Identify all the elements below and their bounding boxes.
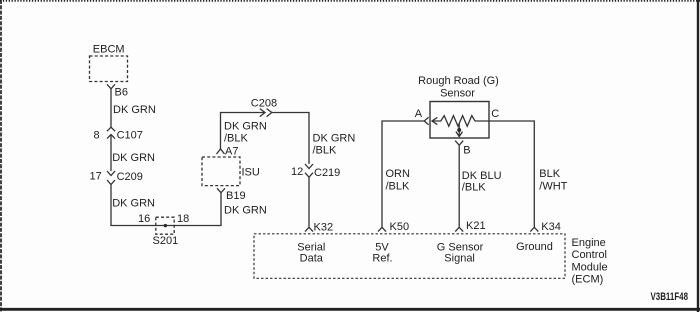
svg-text:C: C — [491, 108, 499, 120]
svg-text:Engine: Engine — [572, 237, 606, 249]
svg-text:/BLK: /BLK — [386, 181, 411, 193]
svg-text:K32: K32 — [314, 222, 334, 234]
wire C208 to C219 — [272, 113, 309, 165]
label DK GRN /BLK wire C208-C219 — [313, 132, 356, 156]
svg-text:K50: K50 — [390, 221, 410, 233]
wire C219 to ECM K32 — [308, 177, 310, 227]
pin B fork — [455, 141, 463, 146]
svg-text:C209: C209 — [117, 171, 143, 183]
svg-text:C107: C107 — [117, 130, 143, 142]
svg-text:C219: C219 — [314, 167, 340, 179]
svg-text:17: 17 — [90, 171, 102, 183]
label G Sensor Signal — [437, 241, 484, 264]
svg-text:DK GRN: DK GRN — [313, 132, 356, 144]
wire A7 to C208 — [221, 113, 265, 149]
svg-text:BLK: BLK — [539, 168, 560, 180]
svg-text:A: A — [415, 108, 423, 120]
svg-text:B: B — [463, 144, 470, 156]
pin K34 fork — [530, 227, 538, 231]
svg-text:Control: Control — [572, 249, 607, 261]
svg-text:Sensor: Sensor — [440, 88, 475, 100]
svg-text:/WHT: /WHT — [539, 181, 567, 193]
wire C107 to C209 — [110, 135, 112, 171]
svg-text:K34: K34 — [541, 221, 561, 233]
svg-text:/BLK: /BLK — [224, 132, 249, 144]
svg-text:/BLK: /BLK — [462, 182, 487, 194]
label DK BLU /BLK — [462, 170, 502, 194]
pin K21 fork — [455, 227, 463, 231]
module ECM — [254, 234, 565, 278]
connector C208 — [260, 109, 272, 117]
label Serial Data — [297, 241, 325, 264]
svg-text:DK GRN: DK GRN — [224, 120, 267, 132]
wire B to K21 — [458, 145, 460, 227]
svg-text:DK GRN: DK GRN — [112, 198, 155, 210]
svg-text:A7: A7 — [225, 146, 238, 158]
pin B19 fork — [217, 188, 225, 192]
svg-text:Module: Module — [572, 261, 608, 273]
pin K50 fork — [378, 227, 386, 231]
wire C to K34 — [475, 121, 534, 227]
pin B6 fork — [107, 84, 115, 89]
svg-text:/BLK: /BLK — [313, 144, 338, 156]
svg-text:DK GRN: DK GRN — [113, 104, 156, 116]
module EBCM — [90, 56, 128, 82]
svg-text:Ground: Ground — [516, 241, 553, 253]
connector C219 — [305, 164, 313, 177]
wiper arrow — [456, 123, 463, 137]
wire B6 to C107 — [110, 89, 112, 127]
wire A to K50 — [382, 121, 424, 227]
sensor Rough Road (G) box — [430, 102, 489, 139]
svg-text:ISU: ISU — [242, 167, 260, 179]
svg-text:C208: C208 — [251, 98, 277, 110]
label ORN /BLK — [386, 168, 411, 193]
svg-text:12: 12 — [291, 166, 303, 178]
svg-text:ORN: ORN — [386, 168, 411, 180]
wiper junction dot — [457, 128, 461, 132]
module ISU — [202, 157, 240, 186]
svg-text:8: 8 — [94, 130, 100, 142]
label BLK /WHT — [539, 168, 567, 193]
svg-text:B6: B6 — [115, 87, 128, 99]
label Engine Control Module (ECM) — [572, 237, 608, 286]
connector C107 — [107, 127, 115, 138]
svg-text:G Sensor: G Sensor — [437, 241, 484, 253]
resistor element — [432, 116, 475, 127]
svg-text:Data: Data — [300, 253, 324, 265]
svg-text:V3B11F48: V3B11F48 — [651, 291, 689, 303]
wire S201 to ISU B19 — [165, 193, 221, 226]
pin K32 fork — [305, 227, 313, 231]
svg-text:(ECM): (ECM) — [572, 274, 604, 286]
svg-text:EBCM: EBCM — [93, 44, 125, 56]
svg-text:Ref.: Ref. — [372, 253, 392, 265]
svg-text:Signal: Signal — [444, 253, 475, 265]
svg-text:K21: K21 — [466, 220, 486, 232]
connector C209 — [107, 171, 115, 185]
pin A fork — [424, 117, 428, 125]
svg-text:18: 18 — [177, 213, 189, 225]
svg-text:DK GRN: DK GRN — [112, 152, 155, 164]
label DK GRN /BLK wire A7-C208 — [224, 120, 267, 144]
svg-text:S201: S201 — [153, 235, 179, 247]
label 5V Ref. — [372, 241, 392, 264]
svg-text:DK GRN: DK GRN — [224, 205, 267, 217]
svg-text:5V: 5V — [375, 241, 389, 253]
svg-text:B19: B19 — [226, 190, 246, 202]
svg-text:Serial: Serial — [297, 241, 325, 253]
svg-text:Rough Road (G): Rough Road (G) — [418, 75, 499, 87]
pin A7 fork — [217, 149, 225, 154]
wire C209 to splice S201 — [111, 185, 165, 226]
svg-text:DK BLU: DK BLU — [462, 170, 502, 182]
svg-text:16: 16 — [138, 213, 150, 225]
splice S201 — [156, 217, 174, 234]
